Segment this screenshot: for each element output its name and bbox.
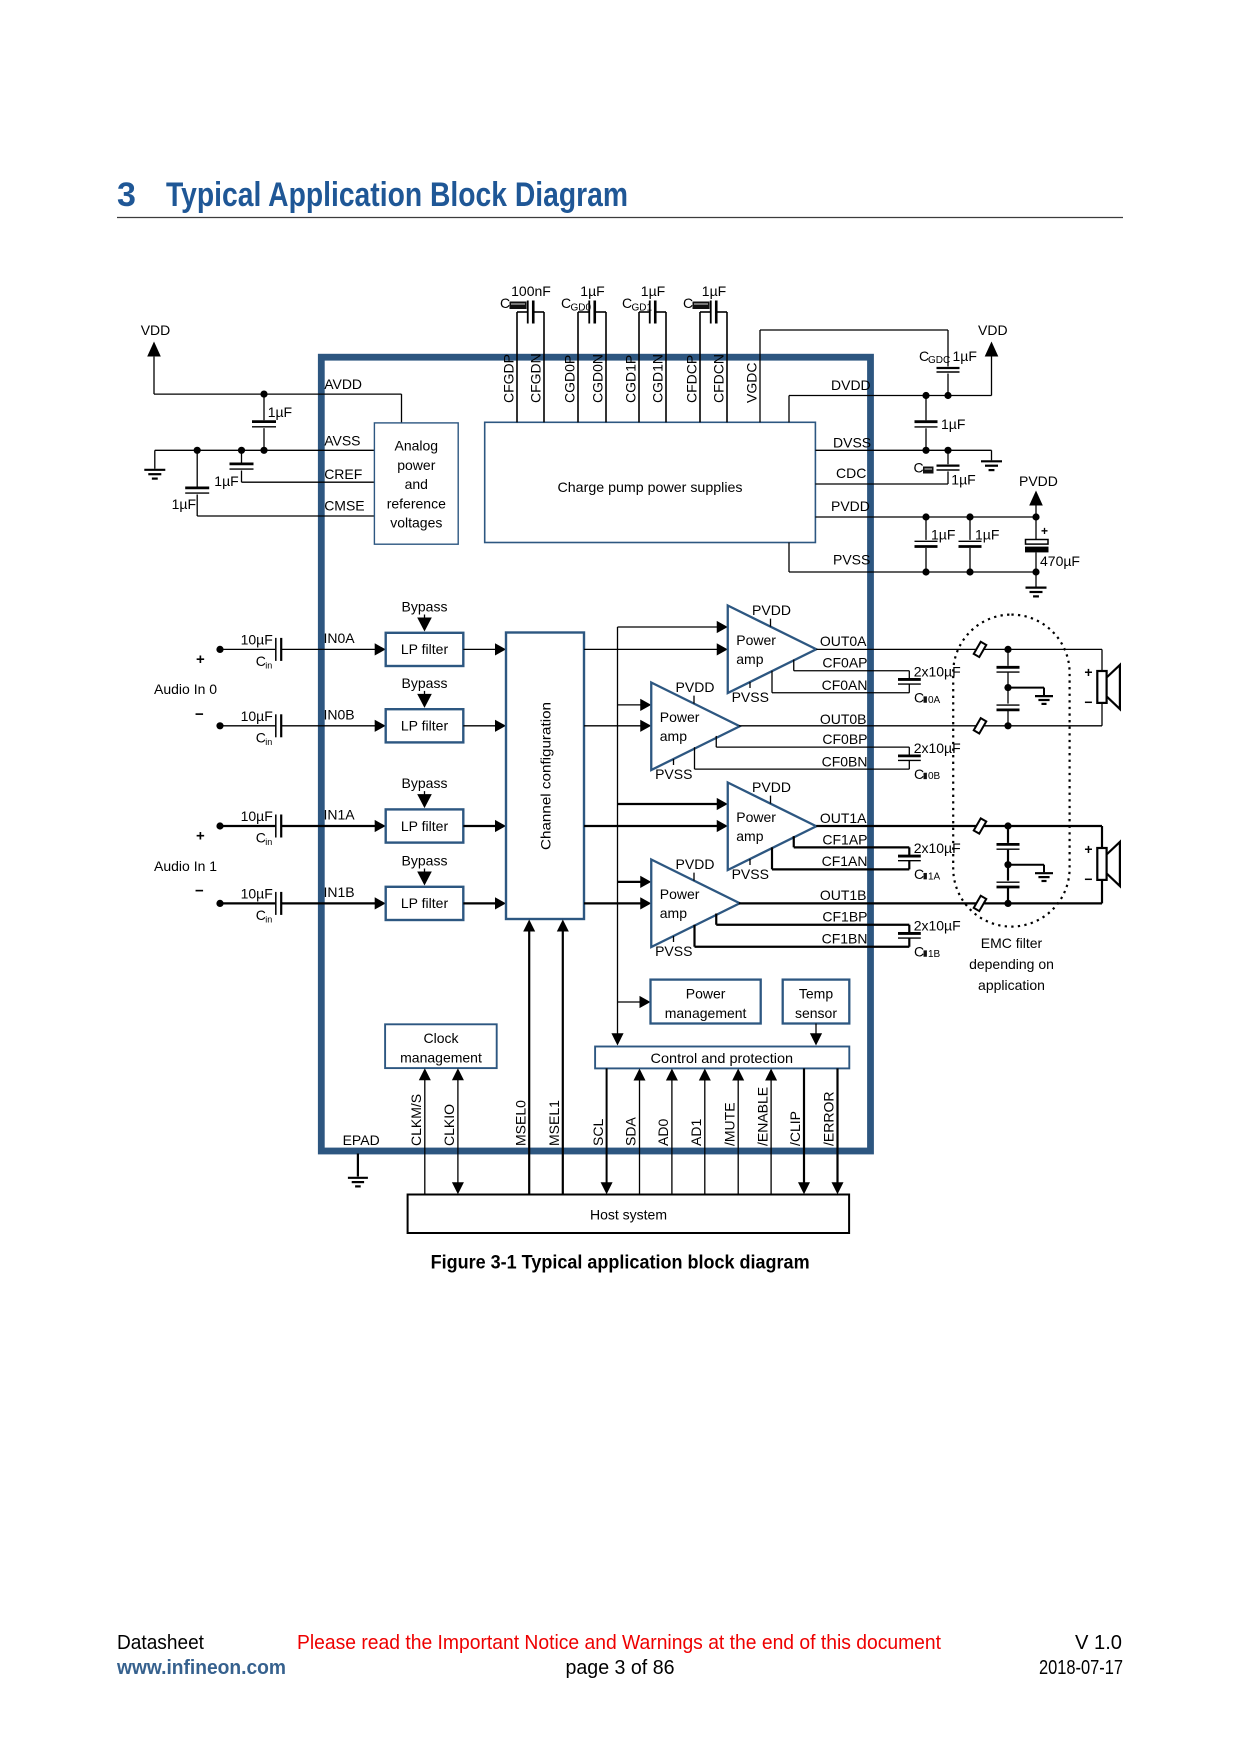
- svg-text:and: and: [405, 476, 428, 492]
- svg-text:reference: reference: [387, 495, 446, 511]
- svg-text:CF0BP: CF0BP: [822, 731, 867, 747]
- svg-text:+: +: [1084, 664, 1092, 680]
- svg-text:amp: amp: [736, 651, 763, 667]
- svg-text:CF0AP: CF0AP: [822, 655, 867, 671]
- svg-text:/ERROR: /ERROR: [821, 1092, 837, 1146]
- svg-text:CGD1P: CGD1P: [623, 355, 639, 403]
- svg-text:IN0B: IN0B: [324, 706, 355, 722]
- svg-text:voltages: voltages: [390, 515, 442, 531]
- svg-text:/MUTE: /MUTE: [721, 1102, 737, 1146]
- svg-text:Clock: Clock: [423, 1030, 459, 1046]
- svg-text:/ENABLE: /ENABLE: [754, 1087, 770, 1146]
- svg-text:SDA: SDA: [623, 1117, 639, 1146]
- svg-text:management: management: [400, 1050, 482, 1066]
- svg-text:Analog: Analog: [395, 438, 439, 454]
- svg-text:1µF: 1µF: [953, 348, 977, 364]
- svg-text:PVSS: PVSS: [655, 943, 692, 959]
- svg-text:GD0: GD0: [571, 303, 592, 314]
- svg-text:IN0A: IN0A: [324, 630, 356, 646]
- svg-text:PVDD: PVDD: [752, 602, 791, 618]
- svg-text:Temp: Temp: [799, 986, 833, 1002]
- svg-text:Typical Application Block Diag: Typical Application Block Diagram: [166, 176, 628, 214]
- svg-text:Bypass: Bypass: [402, 675, 448, 691]
- svg-text:PVDD: PVDD: [752, 779, 791, 795]
- svg-text:CDC: CDC: [836, 465, 866, 481]
- svg-text:LP filter: LP filter: [401, 718, 449, 734]
- svg-text:in: in: [265, 737, 272, 747]
- svg-text:2x10µF: 2x10µF: [914, 917, 961, 933]
- svg-text:10µF: 10µF: [241, 631, 273, 647]
- svg-text:PVSS: PVSS: [833, 552, 870, 568]
- svg-text:DVDD: DVDD: [831, 377, 871, 393]
- svg-text:1µF: 1µF: [975, 527, 999, 543]
- svg-text:CF1AN: CF1AN: [822, 853, 868, 869]
- svg-text:CF0AN: CF0AN: [822, 677, 868, 693]
- svg-text:−: −: [195, 883, 204, 900]
- svg-text:Power: Power: [736, 632, 776, 648]
- svg-text:PVDD: PVDD: [831, 498, 870, 514]
- svg-text:LP filter: LP filter: [401, 895, 449, 911]
- svg-text:Channel configuration: Channel configuration: [538, 702, 554, 850]
- svg-text:MSEL0: MSEL0: [512, 1100, 528, 1146]
- svg-text:Bypass: Bypass: [402, 852, 448, 868]
- svg-text:1µF: 1µF: [268, 404, 292, 420]
- svg-text:Charge pump power supplies: Charge pump power supplies: [558, 479, 743, 495]
- svg-text:1B: 1B: [928, 949, 941, 960]
- svg-text:Bypass: Bypass: [402, 775, 448, 791]
- svg-text:VDD: VDD: [978, 322, 1008, 338]
- svg-text:EPAD: EPAD: [343, 1132, 380, 1148]
- svg-text:/CLIP: /CLIP: [787, 1111, 803, 1146]
- svg-text:C: C: [683, 295, 693, 311]
- svg-text:V 1.0: V 1.0: [1075, 1632, 1122, 1654]
- svg-text:PVSS: PVSS: [732, 689, 769, 705]
- svg-text:1µF: 1µF: [931, 527, 955, 543]
- svg-text:CFDCP: CFDCP: [684, 355, 700, 403]
- svg-text:+: +: [1084, 841, 1092, 857]
- svg-text:Host system: Host system: [590, 1207, 667, 1223]
- svg-text:CMSE: CMSE: [324, 497, 364, 513]
- svg-text:10µF: 10µF: [241, 885, 273, 901]
- svg-text:CF1BN: CF1BN: [822, 931, 868, 947]
- svg-text:PVSS: PVSS: [732, 866, 769, 882]
- svg-text:100nF: 100nF: [511, 283, 551, 299]
- svg-text:IN1A: IN1A: [324, 807, 356, 823]
- svg-text:C: C: [914, 766, 924, 782]
- svg-text:Please read the Important Noti: Please read the Important Notice and War…: [297, 1632, 941, 1654]
- svg-text:CFGDN: CFGDN: [528, 353, 544, 403]
- svg-text:Power: Power: [660, 709, 700, 725]
- svg-text:application: application: [978, 977, 1045, 993]
- svg-text:amp: amp: [660, 905, 687, 921]
- svg-text:CFDCN: CFDCN: [711, 354, 727, 403]
- svg-text:EMC filter: EMC filter: [981, 935, 1043, 951]
- svg-text:in: in: [265, 914, 272, 924]
- svg-text:amp: amp: [660, 728, 687, 744]
- svg-text:C: C: [914, 943, 924, 959]
- svg-text:Power: Power: [686, 986, 726, 1002]
- svg-text:AD0: AD0: [655, 1119, 671, 1146]
- svg-text:C: C: [914, 866, 924, 882]
- svg-text:1µF: 1µF: [214, 473, 238, 489]
- svg-text:CFGDP: CFGDP: [501, 354, 517, 403]
- svg-text:MSEL1: MSEL1: [546, 1100, 562, 1146]
- svg-text:DVSS: DVSS: [833, 435, 871, 451]
- svg-text:GD1: GD1: [632, 303, 653, 314]
- svg-text:www.infineon.com: www.infineon.com: [116, 1657, 286, 1679]
- svg-text:C: C: [500, 295, 510, 311]
- svg-text:LP filter: LP filter: [401, 641, 449, 657]
- svg-text:10µF: 10µF: [241, 808, 273, 824]
- svg-text:IN1B: IN1B: [324, 884, 355, 900]
- svg-text:CLKIO: CLKIO: [441, 1104, 457, 1146]
- svg-text:CREF: CREF: [324, 466, 362, 482]
- svg-text:CF0BN: CF0BN: [822, 753, 868, 769]
- svg-text:depending on: depending on: [969, 956, 1054, 972]
- svg-text:PVDD: PVDD: [1019, 473, 1058, 489]
- svg-text:in: in: [265, 837, 272, 847]
- svg-text:+: +: [196, 651, 205, 668]
- svg-text:Control and protection: Control and protection: [651, 1050, 794, 1066]
- svg-text:CGD0P: CGD0P: [562, 355, 578, 403]
- svg-text:LP filter: LP filter: [401, 818, 449, 834]
- svg-text:C: C: [914, 689, 924, 705]
- svg-text:0A: 0A: [928, 695, 941, 706]
- svg-text:VGDC: VGDC: [744, 363, 760, 403]
- svg-text:OUT0B: OUT0B: [820, 711, 867, 727]
- svg-text:Bypass: Bypass: [402, 598, 448, 614]
- svg-text:power: power: [397, 457, 435, 473]
- svg-text:1µF: 1µF: [172, 496, 196, 512]
- svg-text:CGD1N: CGD1N: [650, 354, 666, 403]
- svg-text:470µF: 470µF: [1040, 553, 1080, 569]
- svg-text:1A: 1A: [928, 871, 941, 882]
- svg-text:0B: 0B: [928, 771, 941, 782]
- svg-text:amp: amp: [736, 828, 763, 844]
- svg-text:OUT1A: OUT1A: [820, 810, 867, 826]
- svg-text:Audio In 1: Audio In 1: [154, 858, 217, 874]
- svg-text:SCL: SCL: [590, 1119, 606, 1146]
- svg-text:C: C: [914, 460, 924, 476]
- svg-text:CGD0N: CGD0N: [590, 354, 606, 403]
- svg-text:OUT1B: OUT1B: [820, 887, 867, 903]
- svg-text:1µF: 1µF: [580, 283, 604, 299]
- svg-text:Figure 3-1 Typical application: Figure 3-1 Typical application block dia…: [431, 1253, 810, 1274]
- svg-text:Power: Power: [660, 886, 700, 902]
- svg-text:−: −: [1084, 871, 1092, 887]
- svg-text:Power: Power: [736, 809, 776, 825]
- svg-text:CF1AP: CF1AP: [822, 832, 867, 848]
- svg-text:CF1BP: CF1BP: [822, 909, 867, 925]
- svg-text:sensor: sensor: [795, 1005, 837, 1021]
- svg-text:page 3 of 86: page 3 of 86: [566, 1657, 675, 1679]
- svg-text:1µF: 1µF: [641, 283, 665, 299]
- svg-text:Audio In 0: Audio In 0: [154, 681, 217, 697]
- svg-text:AD1: AD1: [688, 1119, 704, 1146]
- svg-text:1µF: 1µF: [951, 472, 975, 488]
- svg-text:+: +: [1041, 524, 1048, 538]
- svg-text:3: 3: [117, 176, 136, 214]
- svg-text:2018-07-17: 2018-07-17: [1039, 1657, 1123, 1679]
- svg-text:AVSS: AVSS: [324, 433, 360, 449]
- svg-text:management: management: [665, 1005, 747, 1021]
- svg-text:10µF: 10µF: [241, 708, 273, 724]
- svg-text:1µF: 1µF: [941, 416, 965, 432]
- svg-text:CLKM/S: CLKM/S: [408, 1094, 424, 1146]
- svg-text:in: in: [265, 660, 272, 670]
- svg-text:OUT0A: OUT0A: [820, 633, 867, 649]
- svg-text:GDC: GDC: [928, 355, 950, 366]
- svg-text:1µF: 1µF: [702, 283, 726, 299]
- svg-text:AVDD: AVDD: [324, 376, 362, 392]
- svg-text:PVSS: PVSS: [655, 766, 692, 782]
- svg-text:Datasheet: Datasheet: [117, 1632, 204, 1654]
- svg-text:PVDD: PVDD: [676, 856, 715, 872]
- svg-text:VDD: VDD: [141, 322, 171, 338]
- svg-text:−: −: [195, 706, 204, 723]
- svg-text:PVDD: PVDD: [676, 679, 715, 695]
- svg-text:−: −: [1084, 694, 1092, 710]
- svg-text:+: +: [196, 828, 205, 845]
